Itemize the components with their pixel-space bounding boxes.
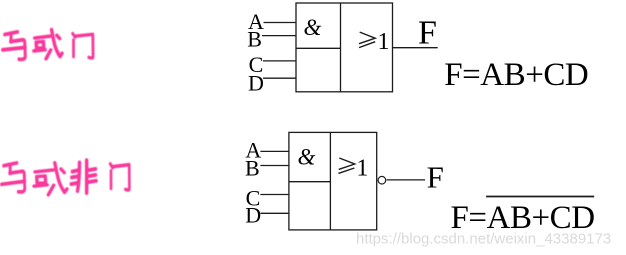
svg-text:B: B xyxy=(247,27,262,52)
svg-text:&: & xyxy=(298,145,316,170)
svg-text:https://blog.csdn.net/weixin_4: https://blog.csdn.net/weixin_43389173 xyxy=(356,231,611,248)
svg-text:D: D xyxy=(245,203,261,228)
svg-text:F: F xyxy=(427,159,444,194)
svg-text:1: 1 xyxy=(356,155,368,181)
svg-text:B: B xyxy=(245,155,260,180)
svg-text:D: D xyxy=(248,71,264,96)
svg-text:F=AB+CD: F=AB+CD xyxy=(444,57,588,93)
svg-text:F: F xyxy=(418,14,437,51)
svg-text:&: & xyxy=(304,15,322,40)
svg-text:1: 1 xyxy=(378,29,390,55)
